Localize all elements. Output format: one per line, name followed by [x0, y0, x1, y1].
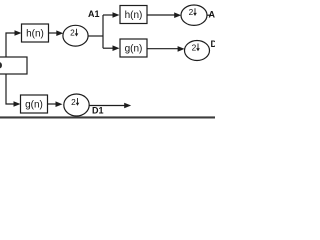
arrowhead into downsampler U3	[178, 46, 185, 52]
arrowhead into filter H2	[113, 12, 120, 18]
downsampler U2 (2↓)	[181, 5, 207, 25]
source label glyph (cut)	[0, 62, 2, 68]
filter g(n) G1	[21, 95, 48, 113]
wire H2 to downsampler U2	[147, 14, 175, 16]
wire branch vertical	[102, 15, 104, 48]
svg-text:g(n): g(n)	[25, 100, 43, 111]
wire U1 to branch	[88, 35, 103, 37]
svg-text:D1: D1	[92, 105, 104, 115]
filter g(n) G2	[120, 39, 147, 57]
arrowhead into filter G2	[113, 45, 120, 51]
arrowhead into filter H1	[15, 30, 22, 36]
svg-text:2: 2	[71, 97, 76, 107]
svg-text:A2: A2	[209, 10, 216, 20]
wire input rail upper segment	[6, 33, 16, 57]
wire G1 to downsampler U4	[48, 103, 57, 105]
downsampler U3 (2↓)	[185, 41, 210, 61]
wire U4 output	[89, 105, 125, 107]
svg-text:2: 2	[189, 7, 194, 17]
wire branch to H2	[103, 14, 114, 16]
wire G2 to downsampler U3	[147, 48, 179, 50]
svg-text:A1: A1	[88, 9, 100, 19]
wire input rail lower segment	[6, 74, 15, 104]
wire H1 to downsampler U1	[49, 32, 58, 34]
svg-text:2: 2	[192, 42, 197, 52]
wire branch to G2	[103, 47, 114, 49]
svg-text:2: 2	[70, 28, 75, 38]
arrowhead into filter G1	[14, 101, 21, 107]
arrowhead into downsampler U4	[56, 101, 63, 107]
downsampler U4 (2↓)	[64, 94, 89, 116]
svg-text:g(n): g(n)	[125, 44, 143, 55]
downsampler U1 (2↓)	[63, 25, 88, 46]
bottom rule	[0, 116, 215, 118]
arrowhead into downsampler U2	[174, 12, 181, 18]
source box (cut off at left edge)	[0, 57, 27, 74]
arrowhead into downsampler U1	[56, 30, 63, 36]
filter h(n) H2	[120, 6, 147, 24]
wire U2 output stub	[207, 14, 211, 16]
svg-text:h(n): h(n)	[26, 29, 44, 40]
filter h(n) H1	[22, 24, 49, 42]
arrowhead output D1	[124, 103, 131, 109]
svg-text:h(n): h(n)	[125, 10, 143, 21]
svg-text:D2: D2	[211, 39, 216, 49]
